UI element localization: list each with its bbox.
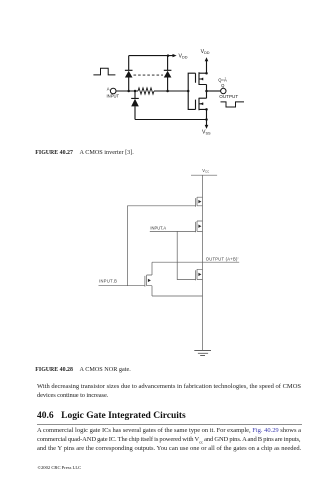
svg-text:VCC: VCC bbox=[202, 168, 209, 174]
svg-text:A: A bbox=[107, 86, 110, 91]
svg-text:INPUT: INPUT bbox=[107, 94, 120, 99]
svg-text:VSS: VSS bbox=[202, 130, 211, 136]
svg-text:INPUT.A: INPUT.A bbox=[150, 226, 166, 231]
svg-text:OUTPUT (A+B)': OUTPUT (A+B)' bbox=[206, 256, 239, 261]
svg-text:OUTPUT: OUTPUT bbox=[219, 94, 238, 99]
svg-text:VDD: VDD bbox=[201, 49, 210, 55]
svg-text:Q: Q bbox=[221, 83, 225, 88]
svg-text:INPUT.B: INPUT.B bbox=[99, 279, 117, 284]
svg-text:VDD: VDD bbox=[179, 54, 188, 60]
